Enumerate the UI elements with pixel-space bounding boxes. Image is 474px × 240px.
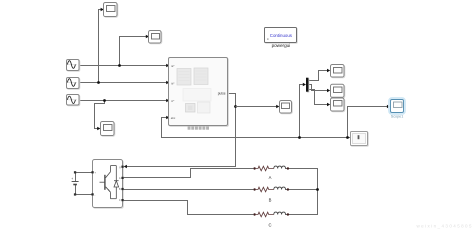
wire: demux output 1 to Scope A	[309, 69, 331, 81]
svg-text:Continuous: Continuous	[270, 33, 293, 38]
demux	[306, 78, 309, 93]
wire: DC source plus to bridge	[74, 171, 93, 181]
scope S1 (top left)	[104, 3, 118, 18]
sine wave source Sine2	[67, 78, 80, 90]
bridge IGBT/diode icon	[100, 166, 119, 199]
scope S3 (below sine sources)	[101, 122, 115, 137]
wire: multimeter output to controller port abc	[162, 116, 351, 138]
wire: bridge output A to RL branch A	[123, 169, 254, 178]
wire: branch from measurement line up to selected Scope1	[346, 105, 390, 139]
svg-text:+: +	[71, 177, 73, 181]
svg-text:Scope1: Scope1	[391, 114, 404, 118]
wire: Sine3 to controller port ic*	[79, 99, 170, 102]
scope C (demux out 3)	[331, 98, 345, 112]
scope S2	[149, 31, 162, 44]
wire: branch from pulse line to Scope S4	[236, 105, 280, 108]
subsystem: current hysteresis controller	[169, 58, 229, 127]
wire: neutral bus vertical	[316, 169, 319, 215]
svg-text:pulse: pulse	[218, 92, 226, 96]
wire: RL branch B to neutral bus	[289, 189, 318, 191]
powergui block	[265, 28, 298, 44]
wire: Sine1 to controller port ia*	[79, 64, 170, 67]
scope S4 (pulse scope)	[280, 101, 293, 114]
universal bridge (IGBT inverter)	[93, 160, 124, 209]
RL branch C	[253, 212, 289, 217]
wire: bridge output C to RL branch C	[123, 201, 254, 215]
wire: branch from ia* line up to Scope S2	[118, 35, 149, 67]
svg-text:A: A	[269, 175, 272, 180]
DC voltage source battery symbol	[71, 177, 78, 184]
bridge port pads and labels	[91, 166, 123, 203]
RL branch A	[253, 166, 289, 171]
wire: DC source minus to bridge	[74, 185, 93, 196]
wire: demux output 2 to Scope B	[309, 85, 331, 93]
svg-text:powergui: powergui	[272, 43, 291, 48]
svg-text:C: C	[268, 222, 271, 227]
svg-text:B: B	[269, 198, 272, 203]
wire: branch from measurement line up to demux	[298, 83, 306, 139]
wire: Sine2 to controller port ib*	[79, 61, 170, 84]
wire: demux output 3 to Scope C	[309, 90, 331, 107]
svg-text:C: C	[119, 199, 121, 202]
svg-text:-: -	[95, 195, 96, 198]
wire: RL branch C to neutral bus	[289, 214, 318, 216]
sine wave source Sine3	[67, 95, 80, 106]
svg-text:abc: abc	[171, 116, 176, 120]
multimeter block	[351, 132, 369, 147]
wire: controller pulse output down to bridge gate g	[124, 94, 237, 169]
wire: branch from ic* line down to Scope S3	[95, 99, 106, 130]
selected scope Scope1	[389, 98, 405, 114]
scope A (demux out 1)	[331, 65, 345, 78]
sine wave source Sine1	[67, 60, 80, 72]
wire: RL branch A to neutral bus	[289, 168, 318, 170]
scope B (demux out 2)	[331, 84, 345, 98]
wire: branch from ib* line up to Scope S1	[97, 8, 104, 84]
wire: bridge output B to RL branch B	[123, 189, 254, 191]
subsystem label (Chinese caption)	[188, 126, 209, 130]
RL branch B	[253, 187, 289, 192]
